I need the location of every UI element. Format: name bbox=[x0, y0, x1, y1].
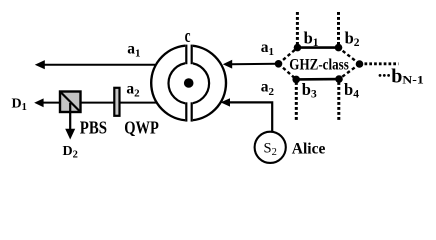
dashed tail above b1 bbox=[296, 12, 299, 45]
GHZ dashed edge right-b4 bbox=[339, 64, 360, 79]
label ...bN-1 ellipsis dots bbox=[379, 74, 382, 77]
arrowhead a2 into cavity bbox=[221, 98, 230, 106]
svg-text:QWP: QWP bbox=[124, 117, 159, 137]
cavity slot wall bottom-left bbox=[185, 102, 187, 121]
cavity slot wall top-left bbox=[185, 45, 187, 65]
GHZ dashed edge left-b1 bbox=[279, 48, 298, 64]
arrowhead D2 bbox=[65, 129, 75, 140]
QWP plate bbox=[114, 88, 119, 116]
wire a2 from S2 to cavity bbox=[228, 102, 272, 131]
cavity slot wall bottom-right bbox=[191, 102, 193, 121]
cavity inner circle bbox=[169, 63, 210, 104]
node b4 bbox=[335, 75, 343, 83]
GHZ bottom edge b3-b4 bbox=[296, 78, 339, 81]
svg-text:c: c bbox=[185, 26, 191, 47]
arrowhead a1 left bbox=[35, 60, 45, 69]
atom dot in cavity bbox=[184, 78, 194, 88]
cavity c : outer ring bbox=[151, 46, 226, 121]
svg-text:GHZ-class: GHZ-class bbox=[289, 57, 349, 74]
wire a2 beam left of cavity bbox=[42, 102, 157, 104]
GHZ dashed edge left-b3 bbox=[279, 64, 297, 80]
dotted wire to bN-1 bbox=[365, 62, 399, 65]
source S2 circle bbox=[255, 132, 286, 163]
wire a1 input from GHZ to cavity bbox=[230, 63, 279, 65]
node b2 bbox=[335, 44, 343, 52]
PBS cube bbox=[60, 92, 81, 113]
dashed tail above b2 bbox=[337, 12, 340, 45]
GHZ dashed edge right-b2 bbox=[339, 48, 360, 64]
cavity slot wall top-right bbox=[191, 45, 193, 65]
node b3 bbox=[292, 76, 300, 84]
svg-text:Alice: Alice bbox=[292, 140, 326, 157]
GHZ top edge b1-b2 bbox=[298, 46, 339, 49]
wire PBS down arm bbox=[69, 103, 71, 131]
arrowhead a1 into cavity bbox=[223, 60, 232, 69]
dashed tail below b3 bbox=[295, 82, 298, 120]
node left vertex bbox=[275, 60, 283, 68]
arrowhead D1 bbox=[34, 98, 43, 107]
dashed tail below b4 bbox=[337, 82, 340, 120]
node b1 bbox=[294, 44, 302, 52]
wire a1 output beam (left long arrow) bbox=[43, 64, 155, 66]
cavity slot cut bbox=[185, 42, 193, 125]
node right vertex bbox=[356, 60, 364, 68]
svg-text:PBS: PBS bbox=[80, 117, 107, 137]
